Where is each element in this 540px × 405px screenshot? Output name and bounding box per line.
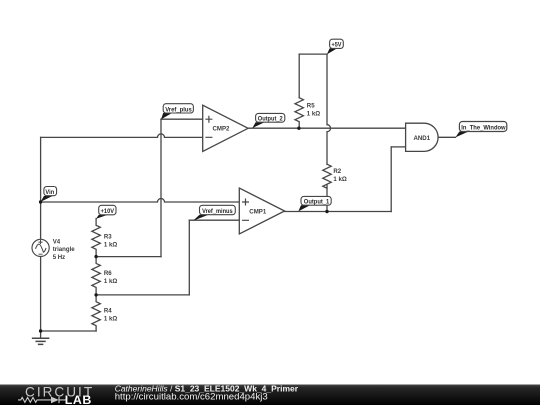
op-amp CMP1: [239, 188, 284, 234]
svg-text:Output_1: Output_1: [304, 200, 330, 206]
svg-text:R5: R5: [307, 102, 315, 109]
svg-text:Output_2: Output_2: [258, 117, 284, 123]
wire Vref_minus vertical: [188, 220, 190, 295]
voltage source V4: [32, 239, 49, 256]
svg-text:Vref_minus: Vref_minus: [202, 209, 233, 215]
svg-text:AND1: AND1: [414, 135, 431, 142]
node flag In_The_Window: [455, 132, 468, 138]
junction node R5/Output_2: [297, 127, 300, 130]
CircuitLab logo schematic line: resistor + diode: [18, 397, 67, 404]
wire Vin junction up: [40, 137, 42, 202]
svg-text:R4: R4: [104, 307, 112, 314]
svg-text:LAB: LAB: [65, 393, 92, 405]
junction node R3/R6 (Vref_plus): [94, 255, 97, 258]
junction node Vin: [39, 200, 42, 203]
node flag Output_1: [298, 205, 310, 211]
svg-text:R2: R2: [333, 168, 341, 175]
resistor R5: [295, 98, 303, 129]
wire Vin to CMP1 plus input (hop over Vref_plus vertical): [41, 199, 240, 203]
svg-text:R3: R3: [104, 233, 112, 240]
svg-text:1 kΩ: 1 kΩ: [104, 241, 117, 248]
wire CMP2 output to AND1 top input: [248, 127, 406, 129]
svg-text:1 kΩ: 1 kΩ: [333, 176, 346, 183]
wire R2 bottom to Output_1 wire: [326, 185, 328, 211]
wire R4 bottom to ground junction: [41, 330, 97, 332]
junction node R6/R4 (Vref_minus): [94, 293, 97, 296]
svg-text:R6: R6: [104, 270, 112, 277]
node flag Vref_minus: [193, 215, 209, 221]
wire Vref_plus vertical: [160, 119, 162, 256]
junction node ground: [39, 329, 42, 332]
node flag +10V: [96, 215, 107, 219]
svg-text:1 kΩ: 1 kΩ: [104, 278, 117, 285]
svg-text:In_The_Window: In_The_Window: [461, 124, 505, 131]
svg-text:CMP1: CMP1: [249, 209, 267, 216]
wire V4 top to Vin junction: [40, 202, 42, 239]
svg-text:1 kΩ: 1 kΩ: [307, 110, 320, 117]
svg-text:triangle: triangle: [53, 246, 76, 253]
node flag Vref_plus: [161, 113, 172, 119]
svg-text:5 Hz: 5 Hz: [53, 254, 66, 261]
svg-text:+10V: +10V: [101, 209, 115, 215]
node flag +5V: [327, 48, 337, 54]
wire Vref_minus horizontal from R6/R4 junction: [96, 294, 189, 296]
wire +5V to R5 top: [298, 54, 300, 98]
svg-text:CMP2: CMP2: [213, 126, 231, 133]
footer bar: [0, 385, 540, 405]
wire R3/R6 junction to Vref_plus vertical: [96, 256, 161, 258]
wire Vref_plus to CMP2 plus input: [161, 118, 203, 120]
wire AND1 bottom input horizontal: [391, 146, 405, 148]
svg-text:Vref_plus: Vref_plus: [165, 107, 192, 113]
ground: [33, 338, 49, 344]
AND gate AND1: [406, 123, 439, 151]
node flag Vin: [41, 196, 53, 202]
svg-text:V4: V4: [53, 239, 61, 246]
wire AND1 output: [438, 136, 455, 138]
wire V4 bottom to ground: [40, 257, 42, 339]
svg-text:http://circuitlab.com/c62mned4: http://circuitlab.com/c62mned4p4kj3: [115, 391, 268, 402]
wire CMP1 output to AND1 branch corner: [285, 211, 392, 213]
wire Vref_minus to CMP1 minus input: [189, 219, 239, 221]
wire +5V node horizontal branch: [299, 53, 327, 55]
resistor R4: [92, 295, 100, 331]
svg-text:+5V: +5V: [332, 43, 342, 49]
resistor R2: [323, 164, 331, 188]
wire Vin to CMP2 minus input (hop over Vref_plus vertical): [41, 134, 203, 138]
resistor R6: [92, 257, 100, 295]
wire +5V vertical to R2 (hop over output_2 wire): [327, 54, 331, 164]
svg-text:1 kΩ: 1 kΩ: [104, 315, 117, 322]
node flag Output_2: [252, 122, 264, 128]
svg-text:Vin: Vin: [45, 190, 54, 196]
op-amp CMP2: [203, 105, 248, 151]
resistor R3: [92, 219, 100, 257]
junction node R2/Output_1: [325, 210, 328, 213]
wire AND1 bottom input vertical: [390, 147, 392, 212]
